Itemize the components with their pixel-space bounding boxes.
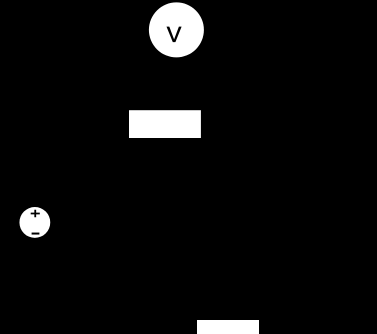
node A: junction left of resistor xyxy=(77,121,83,127)
wire: voltmeter right lead xyxy=(204,30,270,124)
wire: left rail to resistor left terminal xyxy=(35,123,129,125)
voltmeter V (meter U1) xyxy=(148,1,205,58)
node B: junction right of resistor xyxy=(267,121,273,127)
label box (erased value label near bottom) xyxy=(197,320,259,334)
wire: bottom rail xyxy=(35,289,340,291)
wire: right rail down xyxy=(339,124,341,290)
voltage source VS xyxy=(18,206,51,239)
wire: source positive terminal up left rail xyxy=(34,124,36,207)
wire: bottom rail up to source negative terminal xyxy=(34,238,36,290)
wire: voltmeter left lead xyxy=(80,30,149,124)
resistor R1 xyxy=(127,108,203,140)
wire: resistor right terminal to right rail xyxy=(201,123,341,125)
